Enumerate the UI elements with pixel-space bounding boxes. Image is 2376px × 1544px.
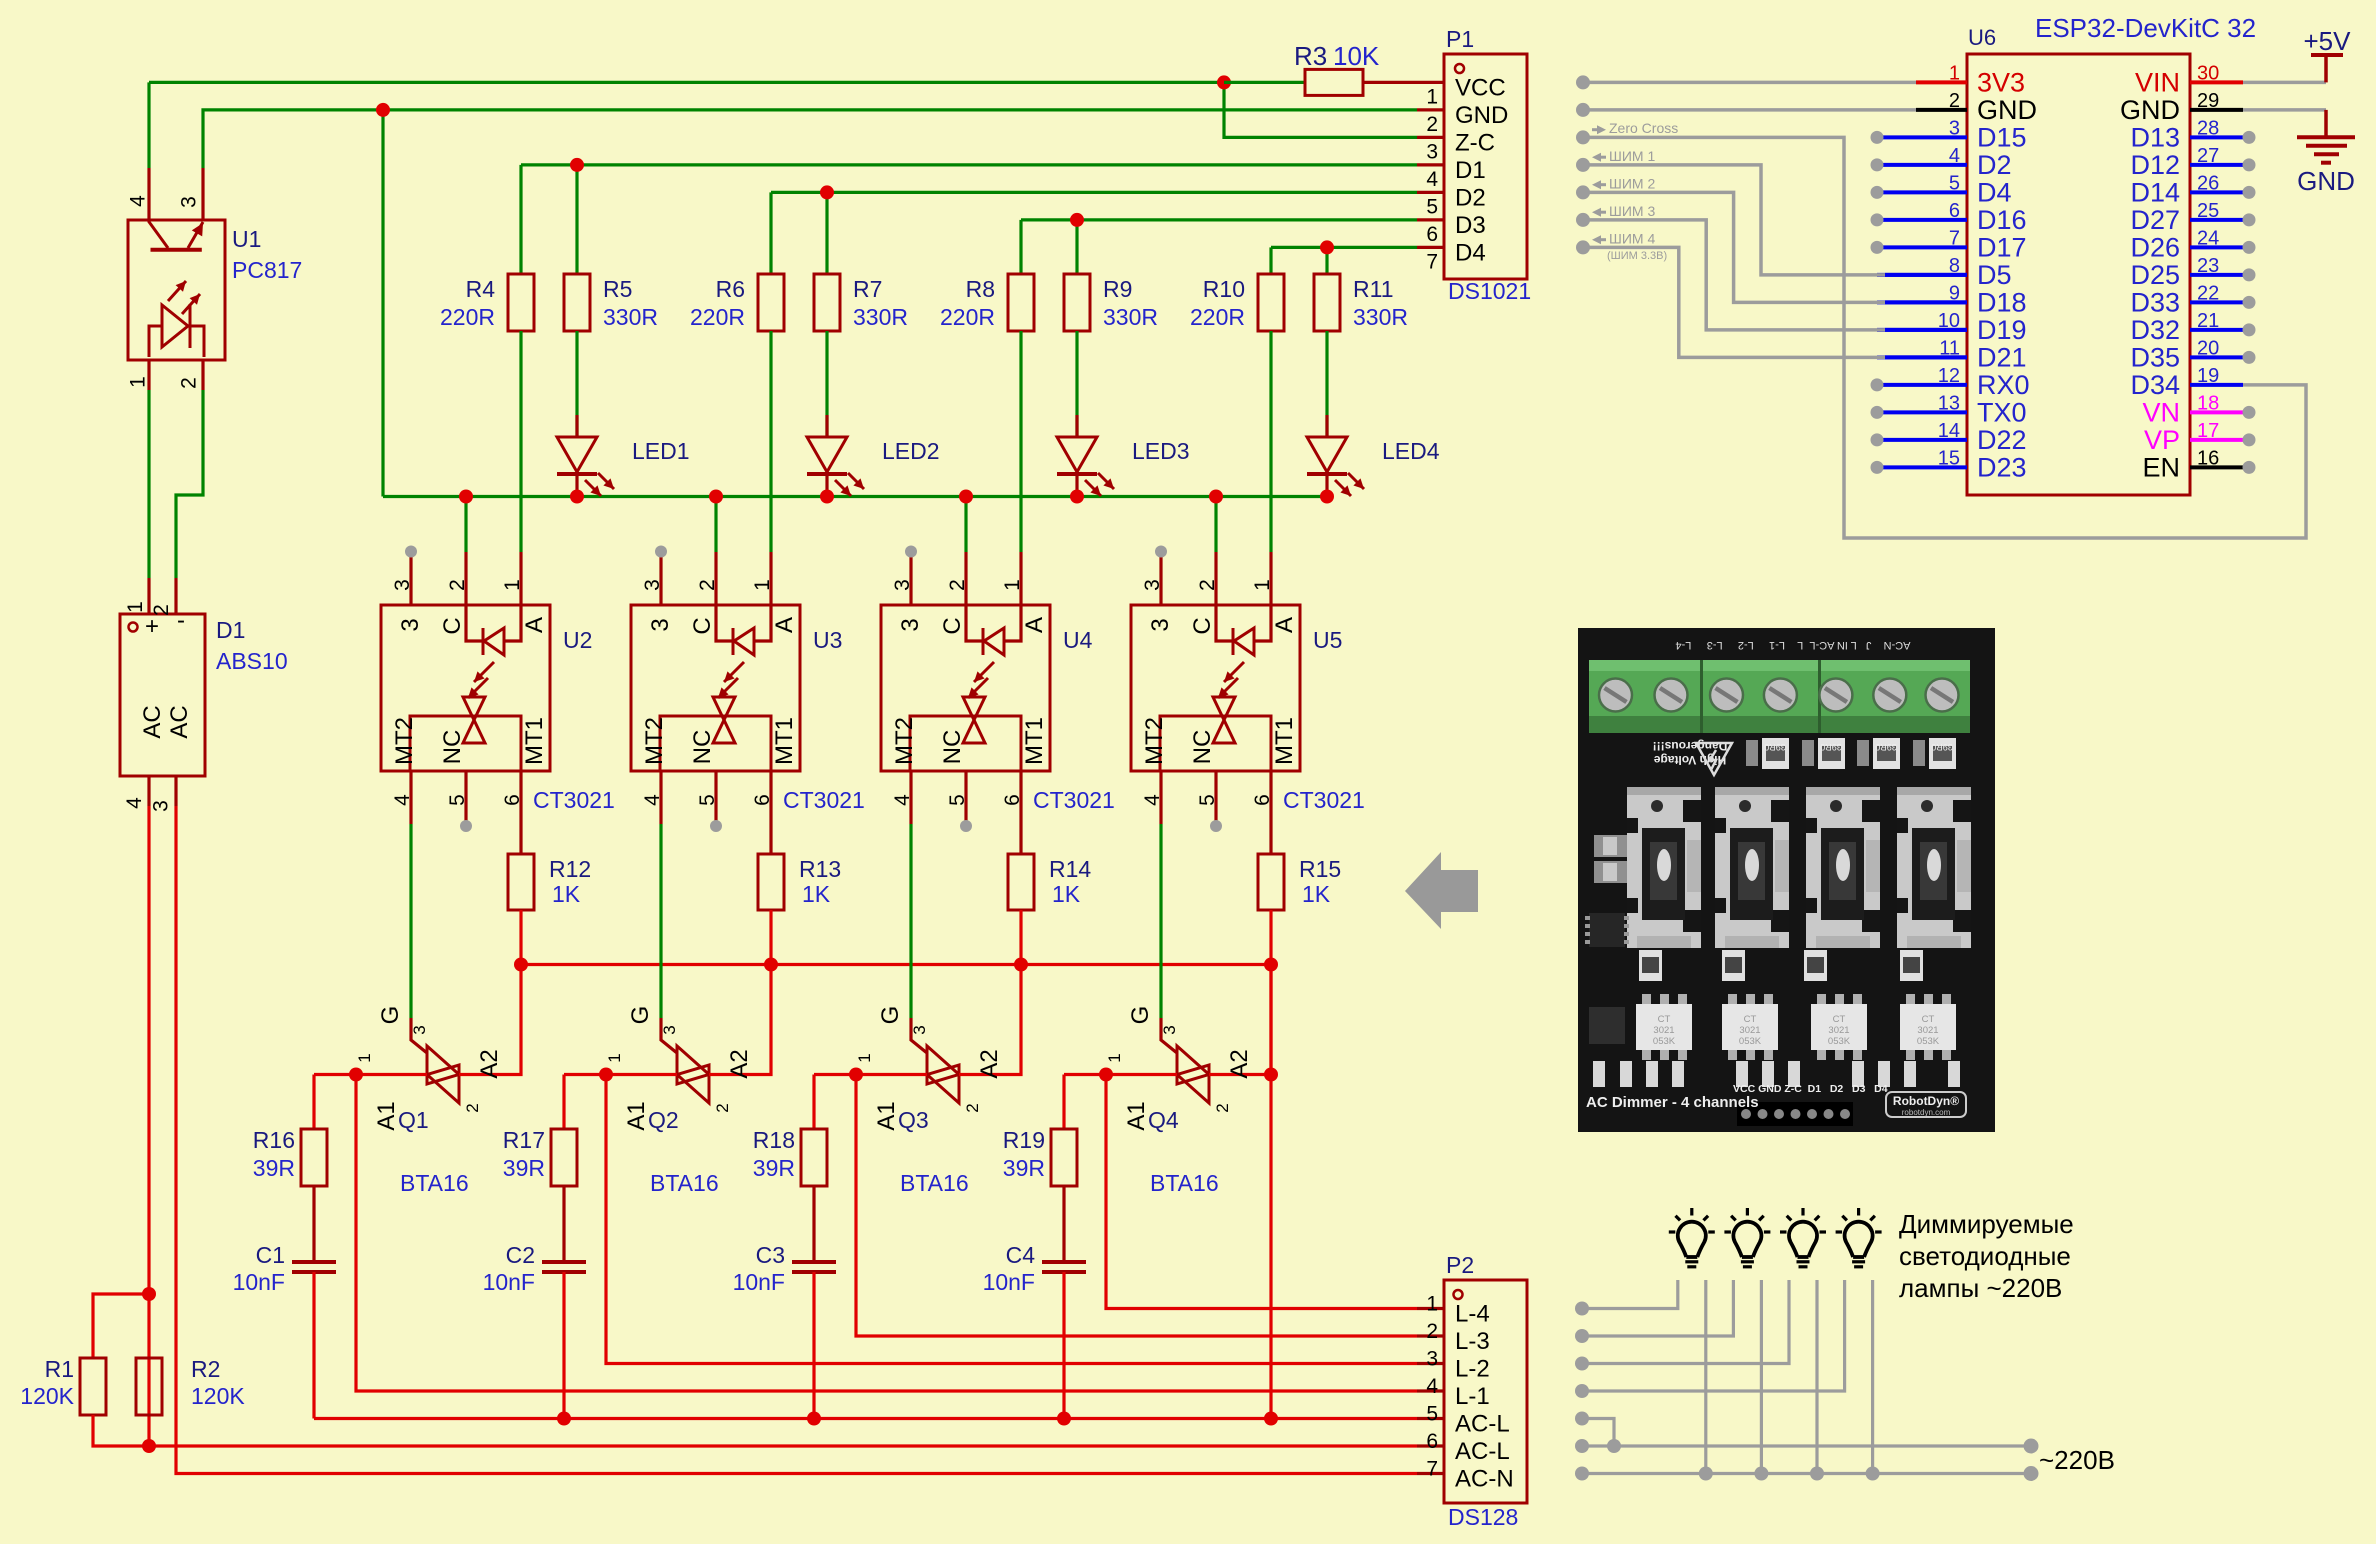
wire PWM3 [1583, 220, 1885, 330]
svg-text:R17: R17 [503, 1127, 545, 1153]
wire triac A2 bus [521, 963, 1271, 966]
svg-text:39R0: 39R0 [1764, 742, 1786, 752]
wire Q4 A1 [1064, 1073, 1177, 1076]
svg-text:C4: C4 [1006, 1242, 1036, 1268]
wire Q1 A1 [314, 1073, 427, 1076]
node Q4 AC-L [1264, 1412, 1278, 1426]
wire lamp 4 return [1871, 1280, 1874, 1474]
svg-text:D32: D32 [2130, 315, 2180, 345]
svg-text:NC: NC [439, 730, 466, 765]
power +5V [2324, 55, 2328, 82]
svg-text:A1: A1 [373, 1101, 400, 1130]
resistor R4 220R [508, 274, 534, 331]
wire U1.1 to D1.1 [147, 390, 150, 578]
svg-text:C2: C2 [506, 1242, 535, 1268]
svg-text:A: A [771, 617, 798, 633]
svg-text:220R: 220R [690, 304, 745, 330]
svg-text:CT: CT [1658, 1014, 1671, 1025]
svg-text:D27: D27 [2130, 205, 2180, 235]
svg-text:D2: D2 [1455, 184, 1486, 211]
svg-text:D1: D1 [216, 617, 245, 643]
bridge rectifier D1 ABS10 [120, 614, 205, 776]
svg-text:MT1: MT1 [521, 717, 548, 765]
node Q3 A1 [849, 1068, 863, 1082]
svg-text:Q4: Q4 [1148, 1107, 1179, 1133]
wire Zero Cross to D34 [1583, 137, 2306, 538]
svg-text:10nF: 10nF [733, 1269, 785, 1295]
svg-text:2: 2 [150, 604, 173, 616]
svg-text:CT3021: CT3021 [783, 787, 865, 813]
mcu U6 ESP32-DevKitC 32 [1967, 54, 2190, 495]
svg-text:AC: AC [139, 705, 166, 738]
svg-text:MT1: MT1 [1021, 717, 1048, 765]
U3 internal triac [713, 696, 735, 699]
photo AC Dimmer board [1578, 628, 1995, 1132]
svg-text:4: 4 [1426, 168, 1438, 191]
svg-text:4: 4 [391, 794, 414, 806]
svg-text:1: 1 [501, 579, 524, 591]
svg-text:1K: 1K [1052, 881, 1081, 907]
svg-text:MT1: MT1 [771, 717, 798, 765]
svg-text:MT2: MT2 [641, 717, 668, 765]
svg-text:6: 6 [1426, 1430, 1438, 1453]
svg-text:BTA16: BTA16 [650, 1170, 719, 1196]
label PWM3 [1592, 208, 1601, 217]
svg-text:robotdyn.com: robotdyn.com [1902, 1108, 1951, 1117]
wire VIN to +5V [2190, 80, 2243, 84]
svg-text:Q2: Q2 [648, 1107, 679, 1133]
capacitor C2 10nF [542, 1260, 586, 1264]
svg-text:LED2: LED2 [882, 438, 940, 464]
svg-text:R15: R15 [1299, 856, 1341, 882]
svg-text:CT3021: CT3021 [1033, 787, 1115, 813]
capacitor C1 10nF [292, 1260, 336, 1264]
wire D3 net [1021, 218, 1417, 221]
wire Q2 A2 [709, 965, 771, 1075]
svg-text:LED3: LED3 [1132, 438, 1190, 464]
svg-text:GND: GND [1977, 95, 2037, 125]
svg-text:VCC: VCC [1455, 74, 1506, 101]
svg-text:330R: 330R [1103, 304, 1158, 330]
svg-text:5: 5 [1426, 195, 1438, 218]
svg-text:C: C [939, 617, 966, 634]
wire C3 to AC-L bus [812, 1272, 815, 1419]
svg-text:D25: D25 [2130, 260, 2180, 290]
svg-text:D14: D14 [2130, 177, 2180, 207]
svg-text:VIN: VIN [2135, 67, 2180, 97]
node C2 AC-L [557, 1412, 571, 1426]
wire D4 net [1271, 246, 1417, 249]
svg-text:1: 1 [1001, 579, 1024, 591]
svg-text:053K: 053K [1653, 1036, 1676, 1047]
svg-text:GND: GND [2120, 95, 2180, 125]
wire AC-L jog [1582, 1419, 1614, 1447]
svg-text:2: 2 [178, 377, 201, 389]
svg-text:3: 3 [1426, 1348, 1438, 1371]
svg-text:MT2: MT2 [1141, 717, 1168, 765]
svg-text:A2: A2 [976, 1049, 1003, 1078]
svg-text:AC-L: AC-L [1455, 1411, 1510, 1438]
svg-text:CT3021: CT3021 [533, 787, 615, 813]
resistor R6 220R [758, 274, 784, 331]
svg-text:MT2: MT2 [391, 717, 418, 765]
svg-text:2: 2 [1196, 579, 1219, 591]
wire Q3 A2 [959, 965, 1021, 1075]
svg-text:5: 5 [696, 794, 719, 806]
svg-text:4: 4 [1426, 1375, 1438, 1398]
wire R1 R2 bottom to P2 AC-L [93, 1415, 1417, 1446]
svg-text:3021: 3021 [1828, 1025, 1849, 1036]
svg-text:1: 1 [855, 1053, 874, 1062]
wire R6 to U3 anode [769, 331, 772, 552]
svg-text:+: + [145, 613, 159, 640]
svg-text:R11: R11 [1353, 276, 1394, 302]
svg-text:5: 5 [1196, 794, 1219, 806]
svg-text:1: 1 [1426, 85, 1438, 108]
node lamp 2 AC-N [1754, 1467, 1768, 1481]
svg-text:A1: A1 [1123, 1101, 1150, 1130]
wire lamp 3 return [1815, 1280, 1818, 1474]
svg-text:R9: R9 [1103, 276, 1132, 302]
svg-text:39R0: 39R0 [1875, 742, 1897, 752]
node R13 A2 [764, 958, 778, 972]
svg-text:R2: R2 [191, 1356, 220, 1382]
svg-text:MT2: MT2 [891, 717, 918, 765]
svg-text:D13: D13 [2130, 122, 2180, 152]
wire U3 cathode from bus [714, 497, 717, 553]
svg-text:GND: GND [2297, 166, 2355, 196]
node lamp 4 AC-N [1866, 1467, 1880, 1481]
svg-text:330R: 330R [1353, 304, 1408, 330]
label PWM1 [1592, 153, 1601, 162]
svg-text:A1: A1 [623, 1101, 650, 1130]
wire D2 net [771, 191, 1417, 194]
wire Q2 to lamp row [606, 1075, 1417, 1364]
svg-text:U3: U3 [813, 627, 842, 653]
svg-text:2: 2 [713, 1103, 732, 1112]
opto-triac U3 CT3021 [631, 605, 800, 771]
svg-text:39R: 39R [253, 1155, 295, 1181]
svg-text:RX0: RX0 [1977, 370, 2030, 400]
resistor R3 10K [1224, 81, 1304, 84]
svg-text:VN: VN [2142, 397, 2180, 427]
svg-text:1: 1 [1251, 579, 1274, 591]
svg-text:AC Dimmer - 4 channels: AC Dimmer - 4 channels [1586, 1094, 1759, 1111]
svg-text:U5: U5 [1313, 627, 1342, 653]
svg-text:AC-L: AC-L [1455, 1438, 1510, 1465]
svg-text:2: 2 [1426, 113, 1438, 136]
wire PWM1 [1583, 165, 1885, 275]
svg-text:BTA16: BTA16 [400, 1170, 469, 1196]
wire PWM4 [1583, 247, 1885, 357]
node Q4 A1 [1099, 1068, 1113, 1082]
svg-text:3021: 3021 [1653, 1025, 1674, 1036]
wire R8 to U4 anode [1019, 331, 1022, 552]
svg-text:MT1: MT1 [1271, 717, 1298, 765]
wire U4 cathode from bus [964, 497, 967, 553]
svg-text:39R: 39R [753, 1155, 795, 1181]
resistor R17 39R [551, 1129, 577, 1186]
svg-text:R16: R16 [253, 1127, 295, 1153]
svg-text:R18: R18 [753, 1127, 795, 1153]
wire C4 to AC-L bus [1062, 1272, 1065, 1419]
svg-text:AC: AC [166, 705, 193, 738]
svg-text:D16: D16 [1977, 205, 2027, 235]
svg-text:2: 2 [1213, 1103, 1232, 1112]
node U2 cathode bus [459, 490, 473, 504]
wire PWM2 [1583, 192, 1885, 302]
svg-text:7: 7 [1426, 250, 1438, 273]
wire lamp 4 feed [1582, 1280, 1845, 1391]
wire C1 to AC-L bus [312, 1272, 315, 1419]
svg-text:D21: D21 [1977, 342, 2027, 372]
svg-text:330R: 330R [603, 304, 658, 330]
optocoupler U1 PC817 [128, 220, 225, 360]
svg-text:D33: D33 [2130, 287, 2180, 317]
svg-text:G: G [1127, 1006, 1154, 1025]
U4 internal led [966, 605, 982, 641]
svg-text:A1: A1 [873, 1101, 900, 1130]
wire AC-L from D1.4 [147, 806, 150, 1446]
wire U1.2 to D1.2 [176, 390, 203, 578]
svg-text:2: 2 [963, 1103, 982, 1112]
resistor R13 1K [758, 854, 784, 910]
svg-text:LED1: LED1 [632, 438, 690, 464]
svg-text:ESP32-DevKitC 32: ESP32-DevKitC 32 [2035, 13, 2256, 43]
node U4 cathode bus [959, 490, 973, 504]
svg-text:Q3: Q3 [898, 1107, 929, 1133]
node C4 AC-L [1057, 1412, 1071, 1426]
svg-text:G: G [377, 1006, 404, 1025]
node LED3 cathode [1070, 490, 1084, 504]
lamp bulb 3 [1789, 1222, 1817, 1257]
svg-text:~220В: ~220В [2039, 1445, 2115, 1475]
svg-text:(ШИМ 3.3В): (ШИМ 3.3В) [1607, 250, 1667, 262]
lamp bulb 1 [1678, 1222, 1706, 1257]
svg-text:DS128: DS128 [1448, 1504, 1518, 1530]
resistor R10 220R [1258, 274, 1284, 331]
svg-text:D4: D4 [1977, 177, 2012, 207]
svg-text:ШИМ 3: ШИМ 3 [1609, 203, 1655, 219]
U3 internal led [716, 605, 732, 641]
node R12 A2 [514, 958, 528, 972]
svg-text:NC: NC [689, 730, 716, 765]
label Zero Cross [1597, 125, 1606, 134]
svg-text:D17: D17 [1977, 232, 2027, 262]
svg-text:D1: D1 [1455, 157, 1486, 184]
wire LED cathode bus [383, 495, 1327, 498]
resistor R19 39R [1051, 1129, 1077, 1186]
svg-text:3: 3 [660, 1025, 679, 1034]
svg-text:1: 1 [605, 1053, 624, 1062]
svg-text:R3: R3 [1294, 41, 1327, 71]
svg-text:A: A [1271, 617, 1298, 633]
led LED4 [1325, 331, 1328, 437]
wire R4 to U2 anode [519, 331, 522, 552]
label PWM2 [1592, 180, 1601, 189]
svg-text:39R0: 39R0 [1820, 742, 1842, 752]
svg-text:220R: 220R [940, 304, 995, 330]
node D1 junction [570, 158, 584, 172]
svg-text:C: C [439, 617, 466, 634]
wire C2 to AC-L bus [562, 1272, 565, 1419]
resistor R12 1K [508, 854, 534, 910]
resistor R2 120K [136, 1358, 162, 1415]
node Q2 A1 [599, 1068, 613, 1082]
U5 internal triac [1213, 696, 1235, 699]
U5 internal led [1216, 605, 1232, 641]
svg-text:2: 2 [696, 579, 719, 591]
svg-text:330R: 330R [853, 304, 908, 330]
resistor R5 330R [564, 274, 590, 331]
svg-text:L-3: L-3 [1455, 1328, 1490, 1355]
svg-text:C3: C3 [756, 1242, 785, 1268]
U4 internal triac [963, 696, 985, 699]
svg-text:ШИМ 2: ШИМ 2 [1609, 175, 1655, 191]
wire Q4 A1 to R19 [1062, 1075, 1065, 1130]
wire Q4 to lamp row [1106, 1075, 1417, 1309]
svg-text:3: 3 [897, 618, 924, 631]
wire U5 cathode from bus [1214, 497, 1217, 553]
svg-text:39R0: 39R0 [1931, 742, 1953, 752]
svg-text:CT: CT [1922, 1014, 1935, 1025]
wire R19 to C4 [1062, 1186, 1065, 1262]
wire R17 to C2 [562, 1186, 565, 1262]
node U3 cathode bus [709, 490, 723, 504]
svg-text:RobotDyn®: RobotDyn® [1893, 1094, 1959, 1108]
node lamp 3 AC-N [1810, 1467, 1824, 1481]
svg-text:лампы ~220В: лампы ~220В [1899, 1273, 2062, 1303]
svg-text:1: 1 [355, 1053, 374, 1062]
wire R16 to C1 [312, 1186, 315, 1262]
svg-text:-: - [177, 607, 185, 634]
node LED-bus branch [381, 110, 384, 497]
svg-text:R14: R14 [1049, 856, 1091, 882]
node lamp 1 AC-N [1699, 1467, 1713, 1481]
svg-text:ШИМ 1: ШИМ 1 [1609, 148, 1655, 164]
connector P1 DS1021 [1444, 54, 1527, 279]
svg-text:R6: R6 [716, 276, 745, 302]
svg-text:L-4: L-4 [1455, 1301, 1490, 1328]
svg-text:A: A [521, 617, 548, 633]
svg-text:R10: R10 [1203, 276, 1245, 302]
svg-text:3: 3 [150, 800, 173, 812]
node Z-C pullup junction [1224, 82, 1417, 137]
svg-text:ШИМ 4: ШИМ 4 [1609, 230, 1655, 246]
svg-text:C: C [1189, 617, 1216, 634]
svg-text:D35: D35 [2130, 342, 2180, 372]
svg-text:D22: D22 [1977, 425, 2027, 455]
led LED2 [825, 331, 828, 437]
svg-text:GND: GND [1455, 102, 1508, 129]
svg-text:4: 4 [641, 794, 664, 806]
svg-text:R19: R19 [1003, 1127, 1045, 1153]
svg-text:4: 4 [127, 195, 150, 207]
svg-text:1K: 1K [1302, 881, 1331, 907]
wire Q3 A1 to R18 [812, 1075, 815, 1130]
svg-text:EN: EN [2142, 452, 2180, 482]
wire AC-L lamp bus [1582, 1444, 2031, 1447]
svg-text:D19: D19 [1977, 315, 2027, 345]
svg-text:1: 1 [1105, 1053, 1124, 1062]
resistor R11 330R [1314, 274, 1340, 331]
wire GND net [203, 110, 1417, 168]
wire Q2 A1 [564, 1073, 677, 1076]
svg-text:3V3: 3V3 [1977, 67, 2025, 97]
svg-text:NC: NC [939, 730, 966, 765]
svg-text:3: 3 [1147, 618, 1174, 631]
svg-text:D3: D3 [1455, 212, 1486, 239]
wire AC-N from D1.3 [176, 806, 1417, 1474]
wire lamp 3 feed [1582, 1280, 1789, 1364]
svg-text:R8: R8 [966, 276, 995, 302]
svg-text:1K: 1K [552, 881, 581, 907]
svg-text:053K: 053K [1917, 1036, 1940, 1047]
svg-text:Zero Cross: Zero Cross [1609, 120, 1678, 136]
svg-text:4: 4 [1141, 794, 1164, 806]
svg-text:1: 1 [124, 601, 147, 613]
lamp bulb 4 [1845, 1222, 1873, 1257]
svg-text:R4: R4 [466, 276, 496, 302]
resistor R16 39R [301, 1129, 327, 1186]
svg-text:R7: R7 [853, 276, 882, 302]
svg-text:2: 2 [463, 1103, 482, 1112]
svg-text:2: 2 [946, 579, 969, 591]
svg-text:AC-N J L IN AC-L L L-: AC-N J L IN AC-L L L-1 L-2 L-3 L-4 [1676, 639, 1911, 651]
svg-text:10nF: 10nF [983, 1269, 1035, 1295]
wire R10 to U5 anode [1269, 331, 1272, 552]
U2 internal triac [463, 696, 485, 699]
svg-text:D5: D5 [1977, 260, 2012, 290]
svg-text:+5V: +5V [2304, 26, 2352, 56]
svg-text:NC: NC [1189, 730, 1216, 765]
capacitor C3 10nF [792, 1260, 836, 1264]
triac Q4 BTA16 [1159, 824, 1162, 1018]
svg-text:L-2: L-2 [1455, 1356, 1490, 1383]
svg-text:LED4: LED4 [1382, 438, 1440, 464]
U2 internal led [466, 605, 482, 641]
wire AC-L bus bottom [314, 1417, 1417, 1420]
svg-text:120K: 120K [20, 1383, 74, 1409]
svg-text:R5: R5 [603, 276, 632, 302]
svg-text:светодиодные: светодиодные [1899, 1241, 2071, 1271]
svg-text:G: G [627, 1006, 654, 1025]
resistor R9 330R [1064, 274, 1090, 331]
svg-text:220R: 220R [1190, 304, 1245, 330]
svg-text:3: 3 [397, 618, 424, 631]
svg-text:5: 5 [946, 794, 969, 806]
wire Q1 A2 [459, 965, 521, 1075]
svg-text:CT: CT [1744, 1014, 1757, 1025]
svg-text:5: 5 [446, 794, 469, 806]
svg-text:U6: U6 [1968, 25, 1996, 50]
svg-text:3021: 3021 [1739, 1025, 1760, 1036]
svg-text:VP: VP [2144, 425, 2180, 455]
svg-text:053K: 053K [1739, 1036, 1762, 1047]
triac Q1 BTA16 [409, 824, 412, 1018]
svg-text:A2: A2 [726, 1049, 753, 1078]
svg-text:6: 6 [501, 794, 524, 806]
svg-text:D34: D34 [2130, 370, 2180, 400]
resistor R15 1K [1258, 854, 1284, 910]
wire lamp 1 feed [1582, 1280, 1678, 1309]
svg-text:3021: 3021 [1917, 1025, 1938, 1036]
capacitor C4 10nF [1042, 1260, 1086, 1264]
wire AC-N lamp bus [1582, 1472, 2031, 1475]
svg-text:P2: P2 [1446, 1252, 1474, 1278]
wire 3V3 [1916, 80, 1967, 84]
svg-text:4: 4 [891, 794, 914, 806]
